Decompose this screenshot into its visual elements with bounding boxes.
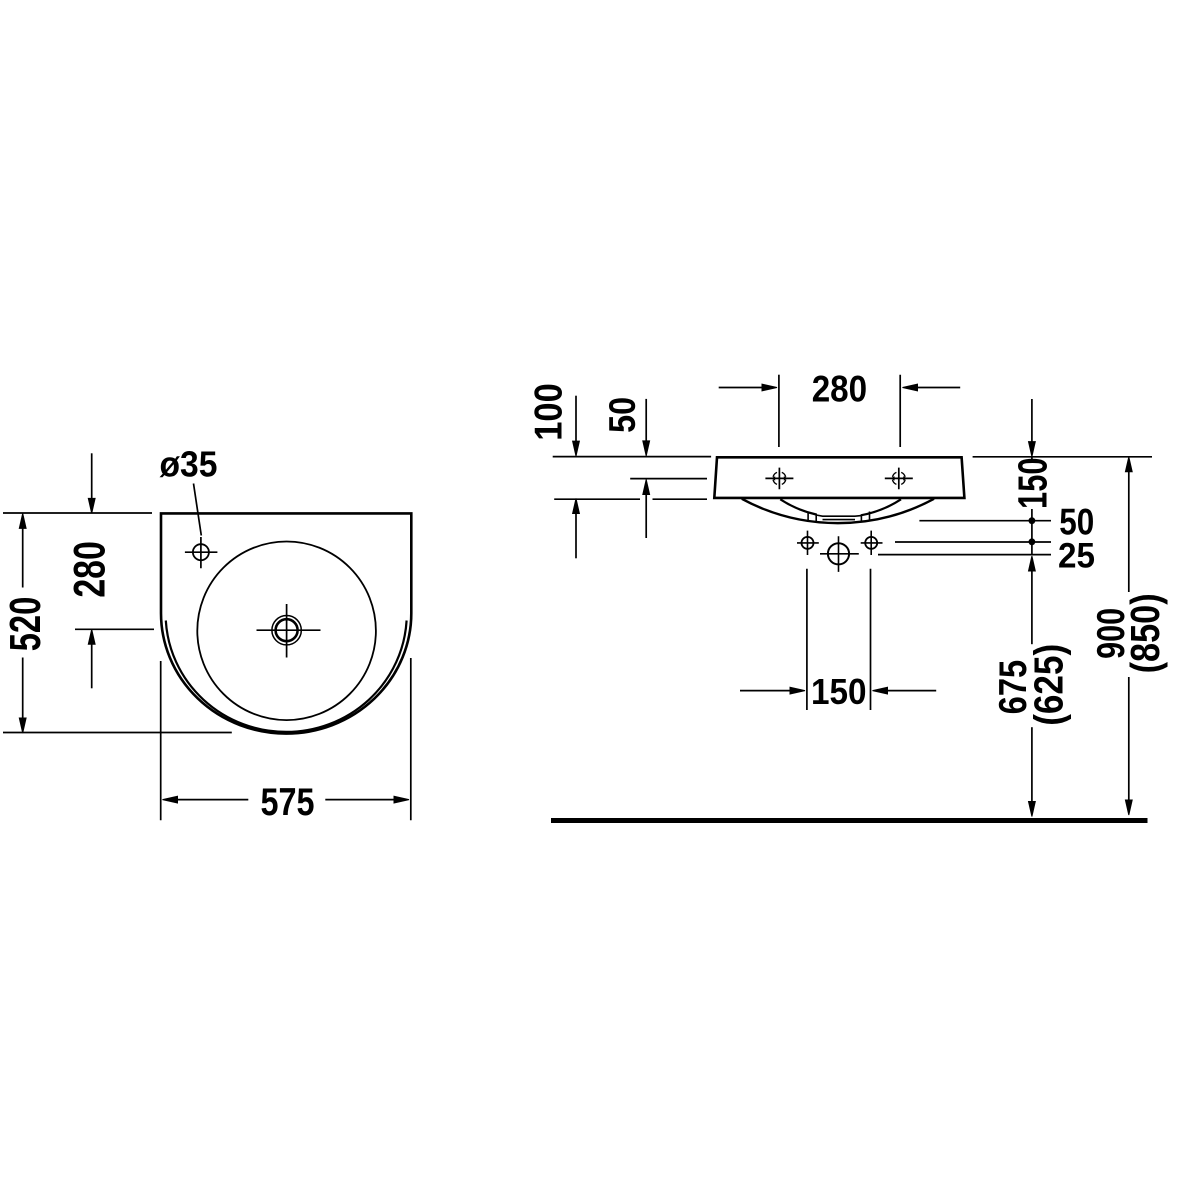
faucet hole centerline cross <box>185 537 218 568</box>
bowl circle <box>197 542 376 721</box>
dimension 675: upper arrow pointing up <box>1031 571 1033 644</box>
extension line at faucet hole height <box>630 478 707 480</box>
svg-text:(850): (850) <box>1122 593 1168 673</box>
svg-text:50: 50 <box>601 397 643 433</box>
dimension 150 (bottom): right arrow <box>888 690 937 692</box>
faucet hole ø35 <box>193 544 209 560</box>
svg-text:(625): (625) <box>1026 644 1072 726</box>
dimension 575: dimension line with outward arrows <box>178 799 394 801</box>
inner bowl underside curve (right part) <box>861 499 901 515</box>
dimension 675: lower arrow pointing down to floor <box>1031 727 1033 801</box>
dimension 280 (top): left extension line <box>778 375 780 447</box>
basin outer outline <box>161 513 411 733</box>
dimension 575: left extension line <box>160 661 162 820</box>
drain outlet circle (side view) <box>828 543 849 564</box>
label 150 (rotated, right) with mask <box>1014 459 1049 509</box>
left faucet hole (dashed) <box>765 468 793 490</box>
extension line at body bottom height <box>554 498 707 500</box>
dimension 520: top extension line <box>3 512 152 514</box>
dimension 50 (top): upper arrow <box>645 399 647 441</box>
dimension 150 (bottom): right extension line <box>870 569 872 710</box>
drain centerline cross <box>257 604 321 658</box>
inner bowl underside curve (left part) <box>780 499 816 514</box>
dimension 50 (top): lower arrow <box>645 494 647 538</box>
drain inner circle <box>276 619 298 641</box>
wall top line, left segment <box>553 456 711 458</box>
dimension 280 (left view): extension line at drain height <box>75 628 154 630</box>
svg-text:ø35: ø35 <box>160 444 218 485</box>
dimension 100: upper arrow <box>575 396 577 442</box>
dimension 280 (left view): lower arrow pointing up to drain line <box>91 644 93 688</box>
drain outer circle <box>272 616 301 645</box>
dimension 520: bottom extension line <box>3 732 232 734</box>
svg-text:520: 520 <box>2 597 50 652</box>
svg-text:280: 280 <box>65 541 114 598</box>
left mounting hole <box>802 537 814 549</box>
dimension 280 (top): left arrow <box>719 387 762 389</box>
wall top line, right segment <box>973 456 1152 458</box>
dimension 280 (left view): upper arrow pointing down to top edge <box>91 453 93 498</box>
right mounting hole <box>865 537 877 549</box>
floor line <box>551 818 1148 823</box>
dot terminator at 150/50 <box>1029 517 1036 524</box>
reference line at 150 below top <box>919 520 1051 522</box>
reference line at drain center <box>878 554 1051 556</box>
outer underside skirt curve <box>742 499 934 523</box>
dimension 900: lower arrow pointing down to floor <box>1128 677 1130 800</box>
svg-text:100: 100 <box>527 383 570 441</box>
svg-text:150: 150 <box>811 671 867 712</box>
svg-text:280: 280 <box>812 369 867 410</box>
basin body (side view) <box>714 457 964 498</box>
svg-text:575: 575 <box>261 781 315 824</box>
dimension 100: lower arrow <box>575 513 577 558</box>
dimension 280 (top): right arrow <box>918 387 961 389</box>
leader line to ø35 label <box>194 484 202 536</box>
svg-text:25: 25 <box>1058 536 1095 576</box>
dimension 520: dimension line with arrows <box>22 528 24 719</box>
dimension 280 (top): right extension line <box>899 375 901 447</box>
dot terminator at 50/25 <box>1029 538 1036 545</box>
drain fitting detail under bowl <box>808 512 869 523</box>
dimension 150 (right side): down arrow at wall line <box>1031 399 1033 442</box>
dimension 900: upper arrow pointing up at wall line <box>1128 472 1130 592</box>
dimension 575: right extension line <box>410 658 412 820</box>
svg-text:150: 150 <box>1010 457 1056 509</box>
dimension 150 (bottom): left arrow <box>740 690 790 692</box>
dimension 150 (bottom): left extension line <box>806 569 808 710</box>
dimension 150 (right side): line down to dot <box>1031 457 1033 555</box>
reference line at mounting holes <box>895 541 1051 543</box>
right faucet hole (dashed) <box>885 468 913 490</box>
basin inner rim curve (wall thickness) <box>166 621 407 732</box>
